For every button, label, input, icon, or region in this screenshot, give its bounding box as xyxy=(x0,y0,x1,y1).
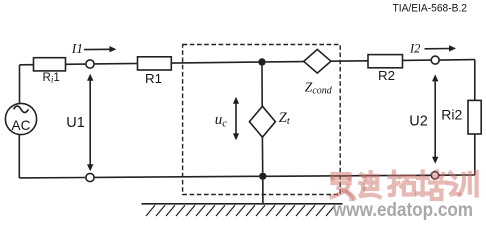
wire Ri1 to node A xyxy=(66,63,86,65)
svg-text:www.edatop.com: www.edatop.com xyxy=(332,199,473,221)
svg-text:R2: R2 xyxy=(378,68,395,83)
node A (open circle) xyxy=(86,60,94,68)
wire Zcond to R2 xyxy=(331,60,368,62)
node D (open circle) xyxy=(431,56,439,64)
arrow I2 current xyxy=(425,45,457,51)
svg-text:uc: uc xyxy=(215,112,228,130)
char yi xyxy=(332,174,355,199)
arrow I1 current xyxy=(84,46,116,52)
wire top-left horizontal (corner to Ri1) xyxy=(20,64,34,66)
svg-text:TIA/EIA-568-B.2: TIA/EIA-568-B.2 xyxy=(393,3,468,15)
svg-text:Ri1: Ri1 xyxy=(43,71,60,85)
ground xyxy=(142,204,343,216)
junction C (filled dot) xyxy=(259,173,266,180)
char tuo xyxy=(389,172,414,196)
svg-text:I1: I1 xyxy=(71,41,83,56)
svg-text:Zcond: Zcond xyxy=(305,79,333,96)
wire bottom rail (right corner to node E) xyxy=(439,174,475,176)
svg-text:Ri2: Ri2 xyxy=(441,106,462,122)
svg-text:Zt: Zt xyxy=(279,110,291,127)
wire node A to R1 xyxy=(94,63,137,65)
wire junction C down to ground xyxy=(262,180,264,204)
svg-text:I2: I2 xyxy=(409,42,420,56)
arrow U2 voltage (double-headed) xyxy=(432,74,438,163)
svg-text:AC: AC xyxy=(12,118,31,133)
resistor Ri1 xyxy=(34,58,66,71)
wire junction B to Zcond xyxy=(266,61,304,63)
wire right vertical (corner to Ri2) xyxy=(474,60,476,101)
wire junction B down to Zt xyxy=(261,66,263,107)
wire junction C to node F xyxy=(94,176,259,177)
node F (open circle) xyxy=(86,173,94,181)
watermark chinese characters xyxy=(332,172,477,200)
svg-text:R1: R1 xyxy=(145,71,162,86)
wire node D to top-right corner xyxy=(439,59,475,61)
resistor Ri2 xyxy=(468,100,481,134)
arrow uc (double-headed) xyxy=(233,97,239,141)
junction B (filled dot) xyxy=(258,58,265,65)
wire node F to bottom-left corner xyxy=(19,177,86,179)
char di xyxy=(359,172,380,197)
source Zcond (diamond) xyxy=(304,49,331,73)
wire left vertical (AC source to bottom corner) xyxy=(18,135,20,178)
source Zt (diamond) xyxy=(249,106,275,137)
source AC xyxy=(5,103,36,134)
wire Ri2 to bottom-right corner xyxy=(474,134,476,175)
resistor R2 xyxy=(368,55,403,68)
svg-text:U2: U2 xyxy=(409,113,428,129)
char xun xyxy=(448,172,476,196)
char pei xyxy=(417,172,445,200)
resistor R1 xyxy=(138,57,172,70)
wire left vertical (top corner to AC source) xyxy=(19,65,21,104)
dashed boundary box xyxy=(183,45,341,195)
arrow U1 voltage (double-headed) xyxy=(87,74,93,172)
wire node E to junction C xyxy=(267,175,432,176)
wire R1 to junction B xyxy=(171,62,258,63)
wire Zt to junction C xyxy=(261,137,263,172)
svg-text:U1: U1 xyxy=(66,115,85,131)
wire R2 to node D xyxy=(403,59,432,61)
node E (open circle) xyxy=(431,172,438,179)
